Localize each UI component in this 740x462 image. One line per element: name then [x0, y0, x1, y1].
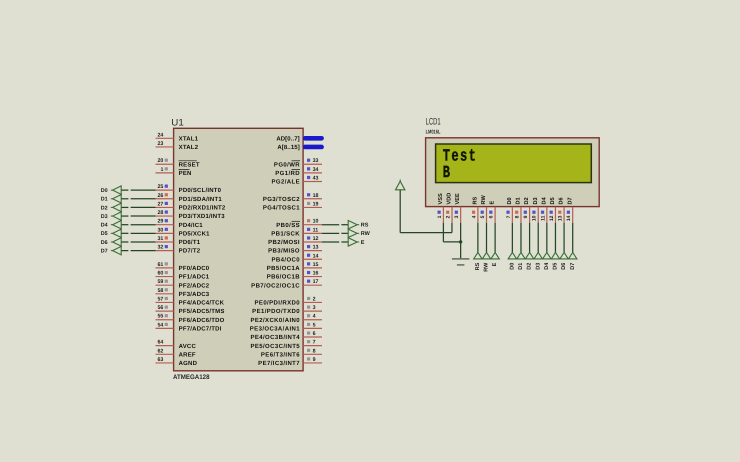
svg-text:PE4/OC3B/INT4: PE4/OC3B/INT4	[250, 334, 300, 341]
U1 pin 30 PD5/XCK1	[156, 227, 211, 237]
svg-text:55: 55	[157, 314, 163, 320]
U1 reference label	[171, 117, 184, 128]
svg-text:PE0/PDI/RXD0: PE0/PDI/RXD0	[255, 300, 301, 307]
svg-text:16: 16	[313, 271, 319, 277]
svg-text:4: 4	[471, 215, 477, 218]
svg-text:19: 19	[313, 201, 319, 207]
svg-text:D1: D1	[518, 263, 524, 270]
svg-text:13: 13	[313, 245, 319, 251]
wire LCD pin 4 to terminal RS	[477, 223, 479, 253]
svg-text:D3: D3	[535, 263, 541, 270]
U1 pin 25 PD0/SCL/INT0	[156, 184, 222, 194]
wire LCD pin 8 to terminal D1	[520, 223, 522, 253]
svg-text:PF6/ADC6/TDO: PF6/ADC6/TDO	[179, 317, 225, 324]
svg-text:PB5/OC1A: PB5/OC1A	[267, 265, 300, 272]
svg-text:RW: RW	[484, 262, 490, 272]
LCD1 pin 14 D7	[566, 197, 573, 222]
svg-text:PD1/SDA/INT1: PD1/SDA/INT1	[179, 196, 223, 203]
svg-text:PB3/MISO: PB3/MISO	[268, 248, 300, 255]
terminal D5 (bottom)	[551, 252, 559, 269]
svg-text:15: 15	[313, 262, 319, 268]
U1 pin 8 PE6/T3/INT6	[261, 348, 322, 358]
svg-text:PG0/WR: PG0/WR	[274, 161, 300, 168]
U1 value label ATMEGA128	[173, 374, 210, 381]
LCD1 pin 3 VEE	[454, 193, 461, 223]
wire U1 PB0 to terminal RS	[322, 224, 348, 226]
svg-text:XTAL2: XTAL2	[179, 144, 199, 151]
terminal D0 (left)	[101, 186, 121, 194]
U1 pin 2 PE0/PDI/RXD0	[255, 296, 322, 306]
wire LCD VEE (pin 3) to ground	[460, 223, 462, 259]
svg-text:PE5/OC3C/INT5: PE5/OC3C/INT5	[250, 343, 300, 350]
svg-text:PB7/OC2/OC1C: PB7/OC2/OC1C	[251, 282, 300, 289]
svg-text:1: 1	[160, 167, 163, 173]
svg-text:PF0/ADC0: PF0/ADC0	[179, 265, 210, 272]
U1 pin 54 PF7/ADC7/TDI	[156, 322, 222, 332]
terminal D0 (bottom)	[508, 252, 516, 269]
svg-text:D7: D7	[567, 197, 573, 204]
svg-text:3: 3	[454, 215, 460, 218]
wire LCD pin 13 to terminal D6	[563, 223, 565, 253]
svg-text:59: 59	[157, 279, 163, 285]
svg-text:PD2/RXD1/INT2: PD2/RXD1/INT2	[179, 205, 226, 212]
wire LCD pin 5 to terminal RW	[486, 223, 488, 253]
svg-text:58: 58	[157, 288, 163, 294]
svg-text:26: 26	[157, 193, 163, 199]
U1 pin 5 PE3/OC3A/AIN1	[250, 322, 322, 332]
U1 pin 32 PD7/T2	[156, 245, 201, 255]
svg-text:D5: D5	[550, 197, 556, 204]
U1 pin 64 AVCC	[156, 340, 197, 350]
LCD1 value label LM016L	[426, 129, 441, 135]
svg-text:PB4/OC0: PB4/OC0	[272, 256, 301, 263]
U1 pin 63 AGND	[156, 357, 198, 367]
U1 pin 43 PG2/ALE	[272, 176, 322, 186]
U1 pin 57 PF4/ADC4/TCK	[156, 296, 225, 306]
svg-text:7: 7	[313, 340, 316, 346]
svg-text:D4: D4	[101, 223, 108, 229]
LCD1 pin 11 D4	[540, 196, 547, 222]
svg-text:VEE: VEE	[455, 193, 461, 204]
terminal D1 (bottom)	[517, 252, 525, 269]
svg-text:RW: RW	[481, 195, 487, 205]
svg-text:11: 11	[540, 215, 546, 221]
LCD display LCD1 body	[426, 138, 600, 207]
svg-text:31: 31	[157, 236, 163, 242]
LCD1 pin 8 D1	[514, 197, 521, 222]
U1 pin 12 PB2/MOSI	[268, 236, 322, 246]
svg-text:PE7/IC3/INT7: PE7/IC3/INT7	[258, 360, 300, 367]
terminal D2 (left)	[101, 203, 121, 211]
svg-text:D5: D5	[553, 263, 559, 270]
svg-text:D0: D0	[509, 263, 515, 270]
terminal D6 (bottom)	[560, 252, 568, 269]
svg-text:8: 8	[313, 348, 316, 354]
U1 pin 19 PG4/TOSC1	[263, 201, 322, 211]
terminal RW (right)	[348, 229, 370, 237]
svg-text:17: 17	[313, 279, 319, 285]
svg-text:PB0/SS: PB0/SS	[276, 222, 300, 229]
U1 pin 1 PEN	[156, 167, 192, 177]
svg-text:D2: D2	[527, 263, 533, 270]
svg-text:3: 3	[313, 305, 316, 311]
LCD1 pin 12 D5	[549, 197, 556, 222]
U1 pin 17 PB7/OC2/OC1C	[251, 279, 322, 289]
wire U1 PB2 to terminal E	[322, 241, 348, 243]
svg-text:63: 63	[157, 357, 163, 363]
svg-text:PG2/ALE: PG2/ALE	[272, 179, 300, 186]
U1 pin 15 PB5/OC1A	[267, 262, 322, 272]
svg-text:PD7/T2: PD7/T2	[179, 248, 201, 255]
U1 pin 10 PB0/SS	[276, 219, 322, 229]
U1 pin 3 PE1/PDO/TXD0	[252, 305, 322, 315]
U1 pin 34 PG1/RD	[275, 167, 322, 177]
wire LCD pin 10 to terminal D3	[537, 223, 539, 253]
terminal E (right)	[348, 238, 365, 246]
terminal D5 (left)	[101, 229, 121, 237]
terminal D4 (bottom)	[543, 252, 551, 269]
svg-text:9: 9	[313, 357, 316, 363]
svg-text:PG1/RD: PG1/RD	[275, 170, 300, 177]
svg-text:PF4/ADC4/TCK: PF4/ADC4/TCK	[179, 300, 225, 307]
svg-text:33: 33	[313, 158, 319, 164]
svg-text:PF5/ADC5/TMS: PF5/ADC5/TMS	[179, 308, 225, 315]
svg-text:2: 2	[313, 296, 316, 302]
LCD1 pin 9 D2	[523, 197, 530, 222]
svg-text:D2: D2	[101, 205, 108, 211]
svg-text:12: 12	[313, 236, 319, 242]
svg-text:PD4/IC1: PD4/IC1	[179, 222, 204, 229]
U1 pin 16 PB6/OC1B	[267, 271, 322, 281]
svg-text:11: 11	[313, 227, 319, 233]
svg-text:AREF: AREF	[179, 351, 196, 358]
terminal D4 (left)	[101, 221, 121, 229]
wire LCD pin 6 to terminal E	[494, 223, 496, 253]
svg-text:PEN: PEN	[179, 170, 192, 177]
svg-text:ATMEGA128: ATMEGA128	[173, 374, 210, 381]
U1 pin 59 PF2/ADC2	[156, 279, 210, 289]
wire LCD pin 9 to terminal D2	[529, 223, 531, 253]
svg-text:D0: D0	[507, 197, 513, 204]
U1 pin 29 PD4/IC1	[156, 219, 204, 229]
svg-text:60: 60	[157, 271, 163, 277]
LCD1 pin 13 D6	[558, 197, 565, 222]
svg-text:PG4/TOSC1: PG4/TOSC1	[263, 205, 300, 212]
svg-text:6: 6	[489, 215, 495, 218]
U1 pin 61 PF0/ADC0	[156, 262, 210, 272]
svg-text:61: 61	[157, 262, 163, 268]
svg-text:D4: D4	[544, 262, 550, 270]
svg-text:54: 54	[157, 322, 163, 328]
wire U1 PD4 to terminal D4	[121, 224, 155, 226]
U1 pin 60 PF1/ADC1	[156, 271, 210, 281]
svg-text:34: 34	[313, 167, 319, 173]
svg-text:D7: D7	[101, 249, 108, 255]
ground	[452, 259, 470, 265]
svg-text:PB1/SCK: PB1/SCK	[271, 230, 300, 237]
svg-text:5: 5	[480, 215, 486, 218]
U1 pin 4 PE2/XCK0/AIN0	[250, 314, 322, 324]
junction VSS/VEE node	[459, 240, 462, 243]
svg-text:RS: RS	[361, 223, 369, 229]
svg-text:43: 43	[313, 176, 319, 182]
svg-text:PD0/SCL/INT0: PD0/SCL/INT0	[179, 187, 222, 194]
U1 pin 55 PF6/ADC6/TDO	[156, 314, 225, 324]
U1 pin 20 RESET	[156, 158, 200, 168]
wire U1 PD6 to terminal D6	[121, 241, 155, 243]
LCD1 pin 1 VSS	[437, 193, 444, 223]
LCD1 pin 5 RW	[480, 195, 487, 223]
wire power to LCD VDD (pin 2)	[400, 190, 452, 233]
wire LCD pin 11 to terminal D4	[546, 223, 548, 253]
wire LCD pin 12 to terminal D5	[554, 223, 556, 253]
svg-text:18: 18	[313, 193, 319, 199]
svg-text:RESET: RESET	[179, 161, 200, 168]
U1 pin 6 PE4/OC3B/INT4	[250, 331, 322, 341]
svg-text:PF3/ADC3: PF3/ADC3	[179, 291, 210, 298]
svg-text:1: 1	[437, 215, 443, 218]
terminal D3 (left)	[101, 212, 121, 220]
U1 pin 18 PG3/TOSC2	[263, 193, 322, 203]
svg-text:AVCC: AVCC	[179, 343, 197, 350]
U1 bus pin A[8..15]	[277, 144, 321, 151]
LCD1 pin 7 D0	[506, 197, 513, 222]
svg-text:PE6/T3/INT6: PE6/T3/INT6	[261, 351, 300, 358]
terminal D2 (bottom)	[525, 252, 533, 269]
svg-text:PD6/T1: PD6/T1	[179, 239, 201, 246]
svg-text:62: 62	[157, 348, 163, 354]
svg-text:PF7/ADC7/TDI: PF7/ADC7/TDI	[179, 325, 222, 332]
LCD1 pin 6 E	[489, 201, 496, 223]
svg-text:D5: D5	[101, 231, 108, 237]
svg-text:PE1/PDO/TXD0: PE1/PDO/TXD0	[252, 308, 300, 315]
wire LCD VSS (pin 1) to VEE node	[443, 223, 460, 242]
U1 pin 24 XTAL1	[156, 132, 199, 142]
U1 pin 27 PD2/RXD1/INT2	[156, 201, 226, 211]
LCD text line 1: Test	[443, 146, 477, 166]
svg-text:E: E	[361, 240, 365, 246]
svg-text:14: 14	[313, 253, 319, 259]
wire LCD pin 7 to terminal D0	[511, 223, 513, 253]
svg-text:U1: U1	[171, 117, 184, 128]
svg-text:PB2/MOSI: PB2/MOSI	[268, 239, 300, 246]
svg-text:D2: D2	[524, 197, 530, 204]
U1 pin 26 PD1/SDA/INT1	[156, 193, 223, 203]
svg-text:6: 6	[313, 331, 316, 337]
svg-text:PD5/XCK1: PD5/XCK1	[179, 230, 211, 237]
svg-text:PD3/TXD1/INT3: PD3/TXD1/INT3	[179, 213, 226, 220]
svg-text:RS: RS	[472, 196, 478, 204]
terminal D3 (bottom)	[534, 252, 542, 269]
wire LCD pin 14 to terminal D7	[572, 223, 574, 253]
LCD1 reference label	[426, 117, 441, 128]
U1 pin 58 PF3/ADC3	[156, 288, 210, 298]
terminal D7 (left)	[101, 246, 121, 254]
U1 pin 31 PD6/T1	[156, 236, 201, 246]
terminal D1 (left)	[101, 195, 121, 203]
svg-text:D0: D0	[101, 188, 108, 194]
svg-text:LCD1: LCD1	[426, 117, 441, 128]
wire U1 PD0 to terminal D0	[121, 189, 155, 191]
LCD1 display screen	[436, 144, 592, 183]
svg-text:25: 25	[157, 184, 163, 190]
U1 pin 13 PB3/MISO	[268, 245, 322, 255]
svg-text:D3: D3	[533, 197, 539, 204]
U1 pin 28 PD3/TXD1/INT3	[156, 210, 226, 220]
wire U1 PD5 to terminal D5	[121, 232, 155, 234]
U1 pin 11 PB1/SCK	[271, 227, 322, 237]
U1 bus pin AD[0..7]	[276, 135, 321, 142]
terminal RW (bottom)	[482, 252, 490, 271]
svg-text:20: 20	[157, 158, 163, 164]
LCD1 pin 10 D3	[532, 197, 539, 222]
svg-text:10: 10	[532, 215, 538, 221]
U1 pin 23 XTAL2	[156, 141, 199, 151]
svg-text:12: 12	[549, 215, 555, 221]
wire U1 PD7 to terminal D7	[121, 250, 155, 252]
wire U1 PB1 to terminal RW	[322, 232, 348, 234]
wire U1 PD3 to terminal D3	[121, 215, 155, 217]
U1 pin 14 PB4/OC0	[272, 253, 322, 263]
svg-text:VSS: VSS	[438, 193, 444, 204]
svg-text:D7: D7	[570, 263, 576, 270]
microcontroller U1 body	[174, 128, 304, 370]
svg-text:9: 9	[523, 215, 529, 218]
wire U1 PD1 to terminal D1	[121, 198, 155, 200]
svg-text:PE2/XCK0/AIN0: PE2/XCK0/AIN0	[250, 317, 300, 324]
U1 pin 62 AREF	[156, 348, 196, 358]
svg-text:23: 23	[157, 141, 163, 147]
wire U1 PD2 to terminal D2	[121, 206, 155, 208]
svg-text:D1: D1	[101, 197, 108, 203]
svg-text:E: E	[490, 201, 496, 205]
svg-text:D6: D6	[559, 197, 565, 204]
LCD1 pin 2 VDD	[446, 193, 453, 223]
svg-text:LM016L: LM016L	[426, 129, 441, 135]
svg-text:PG3/TOSC2: PG3/TOSC2	[263, 196, 300, 203]
svg-text:RS: RS	[475, 262, 481, 270]
svg-text:PF2/ADC2: PF2/ADC2	[179, 282, 210, 289]
svg-text:D6: D6	[101, 240, 108, 246]
svg-text:32: 32	[157, 245, 163, 251]
svg-text:24: 24	[157, 132, 163, 138]
svg-text:13: 13	[558, 215, 564, 221]
svg-text:4: 4	[313, 314, 316, 320]
terminal D7 (bottom)	[569, 252, 577, 269]
U1 pin 33 PG0/WR	[274, 158, 322, 168]
svg-text:D6: D6	[561, 263, 567, 270]
svg-text:29: 29	[157, 219, 163, 225]
power terminal +V	[396, 179, 405, 189]
svg-text:27: 27	[157, 201, 163, 207]
terminal RS (right)	[348, 221, 369, 229]
svg-text:7: 7	[506, 215, 512, 218]
svg-text:PE3/OC3A/AIN1: PE3/OC3A/AIN1	[250, 325, 300, 332]
svg-text:5: 5	[313, 322, 316, 328]
svg-text:E: E	[492, 262, 498, 266]
LCD1 pin 4 RS	[471, 196, 478, 222]
svg-text:2: 2	[446, 215, 452, 218]
svg-text:14: 14	[566, 215, 572, 221]
svg-text:B: B	[443, 163, 452, 183]
U1 pin 9 PE7/IC3/INT7	[258, 357, 322, 367]
svg-text:XTAL1: XTAL1	[179, 135, 199, 142]
terminal D6 (left)	[101, 238, 121, 246]
terminal RS (bottom)	[474, 252, 482, 270]
svg-text:AD[0..7]: AD[0..7]	[276, 135, 299, 142]
svg-text:28: 28	[157, 210, 163, 216]
U1 pin 56 PF5/ADC5/TMS	[156, 305, 225, 315]
svg-text:AGND: AGND	[179, 360, 198, 367]
svg-text:VDD: VDD	[447, 193, 453, 205]
LCD text line 2: B	[443, 163, 452, 183]
svg-text:57: 57	[157, 296, 163, 302]
svg-text:RW: RW	[361, 231, 371, 237]
svg-text:56: 56	[157, 305, 163, 311]
svg-text:D4: D4	[541, 196, 547, 204]
svg-text:10: 10	[313, 219, 319, 225]
svg-text:64: 64	[157, 340, 163, 346]
svg-text:PB6/OC1B: PB6/OC1B	[267, 274, 300, 281]
svg-text:D3: D3	[101, 214, 108, 220]
svg-text:A[8..15]: A[8..15]	[277, 144, 299, 151]
svg-text:30: 30	[157, 227, 163, 233]
U1 pin 7 PE5/OC3C/INT5	[250, 340, 322, 350]
svg-text:D1: D1	[516, 197, 522, 204]
terminal E (bottom)	[491, 252, 499, 266]
svg-text:8: 8	[514, 215, 520, 218]
svg-text:PF1/ADC1: PF1/ADC1	[179, 274, 210, 281]
